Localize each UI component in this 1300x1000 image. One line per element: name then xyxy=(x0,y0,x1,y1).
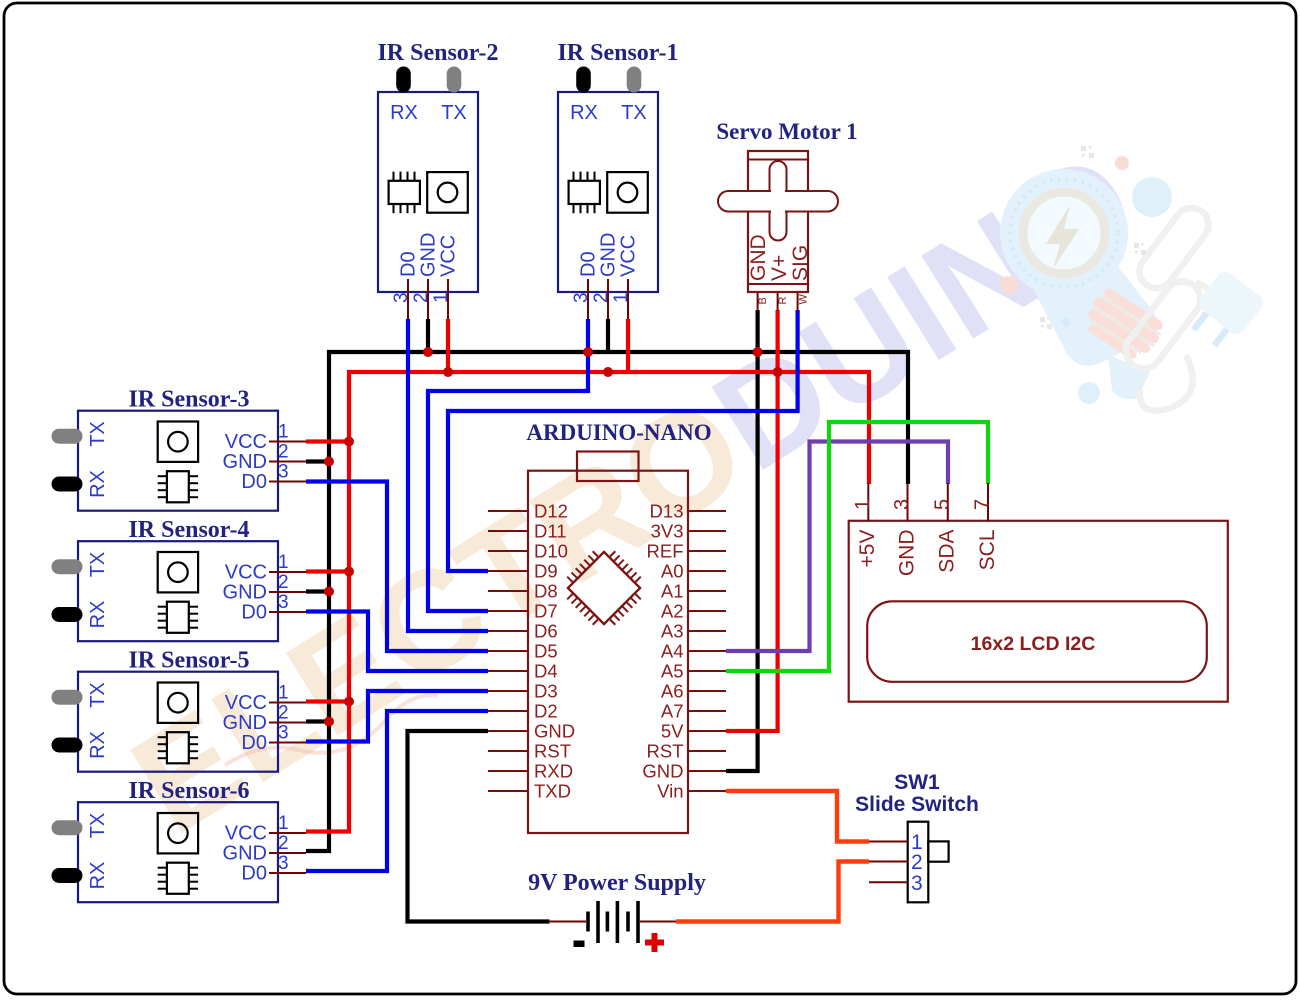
junction node J3 xyxy=(583,347,593,357)
svg-text:IR Sensor-5: IR Sensor-5 xyxy=(128,648,249,674)
svg-text:D4: D4 xyxy=(534,661,558,682)
junction node J5 xyxy=(753,347,763,357)
junction node J10 xyxy=(324,587,334,597)
svg-text:D9: D9 xyxy=(534,561,558,582)
svg-text:7: 7 xyxy=(972,499,994,510)
servo horn cross xyxy=(718,161,838,241)
base stripes xyxy=(1078,284,1168,366)
junction node J4 xyxy=(603,367,613,377)
svg-text:Slide Switch: Slide Switch xyxy=(855,793,979,816)
switch pin stubs 1 2 3 xyxy=(869,842,908,883)
wire Arduino A4 to LCD SDA (purple) xyxy=(726,442,948,652)
svg-text:IR Sensor-3: IR Sensor-3 xyxy=(128,387,249,413)
battery 9V power supply xyxy=(528,870,706,952)
svg-text:IR Sensor-6: IR Sensor-6 xyxy=(128,778,249,804)
svg-text:D8: D8 xyxy=(534,581,558,602)
wire IR4 GND to bus xyxy=(306,589,331,593)
LCD pin stubs 1 3 5 7 xyxy=(868,483,988,521)
switch actuator tab xyxy=(928,841,948,861)
wire IR3 VCC to bus xyxy=(306,439,351,443)
svg-text:A4: A4 xyxy=(661,641,684,662)
wire IR2 VCC to bus xyxy=(446,319,450,372)
svg-text:SW1: SW1 xyxy=(894,771,940,794)
svg-text:IR Sensor-2: IR Sensor-2 xyxy=(377,40,498,66)
bulb head circle xyxy=(1000,169,1128,297)
dotted ring xyxy=(1010,179,1118,287)
svg-text:REF: REF xyxy=(647,541,684,562)
servo motor Servo Motor 1 xyxy=(716,119,857,311)
svg-text:GND: GND xyxy=(747,234,770,281)
svg-text:1: 1 xyxy=(852,499,874,510)
svg-text:A2: A2 xyxy=(661,601,684,622)
gray ring xyxy=(1023,192,1105,274)
lightning bolt xyxy=(1046,205,1079,269)
bulb base tip xyxy=(1108,355,1150,399)
wire Arduino GND left to battery minus xyxy=(408,731,550,922)
svg-text:D13: D13 xyxy=(650,501,684,522)
svg-text:IR Sensor-1: IR Sensor-1 xyxy=(557,40,678,66)
svg-text:V+: V+ xyxy=(768,255,791,281)
watermark light-bulb logo xyxy=(1000,146,1266,411)
watermark ELECTRODUINO text xyxy=(106,121,1164,864)
svg-text:D2: D2 xyxy=(534,701,558,722)
svg-text:16x2 LCD I2C: 16x2 LCD I2C xyxy=(971,633,1096,655)
svg-text:TXD: TXD xyxy=(534,781,571,802)
wire IR1 GND to bus xyxy=(606,319,610,352)
wire servo GND down to Arduino GND right pin xyxy=(726,310,758,771)
junction node J8 xyxy=(324,457,334,467)
servo pin stubs B R W xyxy=(758,293,798,311)
battery terminal stubs xyxy=(549,921,676,923)
wire GND bus: IR6 GND up left side, across top, down to LCD GND xyxy=(306,352,908,851)
svg-text:W: W xyxy=(798,294,810,305)
svg-text:A1: A1 xyxy=(661,581,684,602)
svg-text:B: B xyxy=(757,297,769,304)
junction node J9 xyxy=(344,567,354,577)
junction node J11 xyxy=(344,697,354,707)
wire IR1 VCC to bus xyxy=(626,319,630,372)
svg-text:GND: GND xyxy=(534,721,575,742)
svg-text:R: R xyxy=(777,297,789,305)
svg-text:D3: D3 xyxy=(534,681,558,702)
svg-text:IR Sensor-4: IR Sensor-4 xyxy=(128,517,249,543)
watermark red script squiggle xyxy=(225,695,438,765)
plug xyxy=(1183,268,1267,354)
svg-text:9V Power Supply: 9V Power Supply xyxy=(528,870,706,896)
svg-text:A5: A5 xyxy=(661,661,684,682)
battery cell plates xyxy=(588,901,638,943)
minus symbol xyxy=(574,941,585,948)
wire servo SIG to Arduino D9 xyxy=(448,310,798,571)
junction node J2 xyxy=(443,367,453,377)
wire IR3 GND to bus xyxy=(306,459,331,463)
wire Arduino A5 to LCD SCL (green) xyxy=(726,422,988,671)
svg-text:SDA: SDA xyxy=(936,530,959,573)
svg-text:5V: 5V xyxy=(661,721,684,742)
svg-text:A0: A0 xyxy=(661,561,684,582)
junction node J12 xyxy=(324,717,334,727)
junction node J6 xyxy=(773,367,783,377)
wire IR1 D0 to Arduino D7 xyxy=(428,319,588,611)
wire IR6 D0 to Arduino D2 xyxy=(306,711,488,871)
svg-text:SCL: SCL xyxy=(976,530,999,571)
svg-text:GND: GND xyxy=(896,530,919,577)
wire IR2 GND to bus xyxy=(426,319,430,352)
svg-text:RST: RST xyxy=(534,741,571,762)
wire IR5 VCC to bus xyxy=(306,699,351,703)
junction node J7 xyxy=(344,437,354,447)
svg-text:RXD: RXD xyxy=(534,761,573,782)
svg-text:RST: RST xyxy=(647,741,684,762)
wire servo V+ down to Arduino 5V pin xyxy=(726,310,778,731)
slide switch SW1 xyxy=(855,771,979,902)
svg-text:D12: D12 xyxy=(534,501,568,522)
decorative dots xyxy=(1132,177,1172,217)
svg-text:D6: D6 xyxy=(534,621,558,642)
svg-text:A6: A6 xyxy=(661,681,684,702)
wire Arduino Vin to switch pin1 (orange) xyxy=(726,791,869,842)
wire IR4 D0 to Arduino D4 xyxy=(306,612,488,672)
pin lines left and right xyxy=(488,511,726,791)
svg-text:3: 3 xyxy=(891,499,913,510)
svg-text:2: 2 xyxy=(911,851,923,874)
svg-text:GND: GND xyxy=(642,761,683,782)
LCD body xyxy=(849,521,1228,702)
svg-text:A7: A7 xyxy=(661,701,684,722)
svg-text:3: 3 xyxy=(911,872,923,895)
wire IR4 VCC to bus xyxy=(306,569,351,573)
switch body xyxy=(908,822,929,903)
svg-text:+5V: +5V xyxy=(856,530,879,568)
svg-text:A3: A3 xyxy=(661,621,684,642)
Arduino Nano U1 xyxy=(488,420,726,833)
wire VCC bus: IR6 VCC up left side, across top, down to LCD +5V xyxy=(306,372,869,832)
svg-text:ARDUINO-NANO: ARDUINO-NANO xyxy=(526,420,711,445)
LCD module 16x2 LCD I2C xyxy=(849,483,1228,702)
cord loops xyxy=(1119,201,1216,411)
Arduino body xyxy=(528,471,688,833)
svg-text:D5: D5 xyxy=(534,641,558,662)
LCD screen xyxy=(867,601,1207,682)
wire IR5 GND to bus xyxy=(306,719,331,723)
plus symbol xyxy=(645,933,664,952)
svg-text:Vin: Vin xyxy=(657,781,683,802)
usb connector xyxy=(577,452,639,482)
svg-text:SIG: SIG xyxy=(789,245,812,281)
servo body xyxy=(748,151,808,292)
wire IR3 D0 to Arduino D5 xyxy=(306,482,488,652)
wire IR5 D0 to Arduino D3 xyxy=(306,691,488,742)
svg-text:D11: D11 xyxy=(534,521,567,542)
svg-text:Servo Motor 1: Servo Motor 1 xyxy=(716,119,857,144)
wire IR2 D0 to Arduino D6 xyxy=(408,319,488,631)
MCU chip (rotated) xyxy=(556,540,652,636)
svg-text:3V3: 3V3 xyxy=(651,521,684,542)
wire battery plus to switch pin2 (orange) xyxy=(676,862,869,922)
junction node J1 xyxy=(423,347,433,357)
svg-text:5: 5 xyxy=(932,499,954,510)
svg-text:D7: D7 xyxy=(534,601,558,622)
svg-text:D10: D10 xyxy=(534,541,568,562)
bulb neck xyxy=(1030,254,1158,366)
